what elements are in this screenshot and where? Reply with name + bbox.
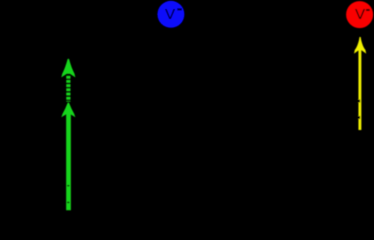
tick mark on yellow line (lower)	[358, 116, 361, 119]
green dashed arrow (upper segment)	[61, 59, 75, 102]
node V- (blue terminal circle)	[157, 1, 184, 28]
svg-text:V: V	[355, 6, 366, 23]
node V+ (red terminal circle)	[346, 1, 373, 28]
green solid arrow (lower segment)	[61, 103, 75, 211]
svg-text:V: V	[165, 6, 176, 23]
yellow arrow	[354, 37, 366, 130]
tick mark on yellow line (upper)	[358, 100, 361, 103]
tick mark on green line (lower)	[67, 202, 69, 203]
tick mark on green line (upper)	[67, 185, 69, 186]
